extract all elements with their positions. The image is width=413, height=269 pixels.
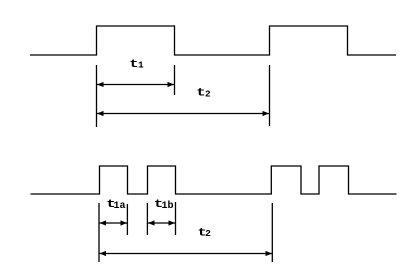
- arrowhead t1 right: [168, 82, 175, 87]
- label t2 top: [196, 87, 211, 99]
- arrowhead t2 right: [263, 111, 270, 116]
- wire top waveform: [30, 26, 396, 55]
- arrowhead t1a right: [121, 220, 128, 225]
- wire t2 bottom arrow shaft: [100, 253, 273, 255]
- arrowhead t2 left: [97, 111, 104, 116]
- arrowhead t1 left: [97, 82, 104, 87]
- wire t1b arrow shaft: [148, 222, 175, 224]
- label t1b: [154, 199, 174, 212]
- wire t1 arrow shaft: [97, 84, 174, 86]
- label t1: [129, 59, 144, 71]
- wire bottom waveform: [31, 166, 397, 194]
- arrowhead t1a left: [100, 220, 107, 225]
- arrowhead t2 bottom left: [100, 251, 107, 256]
- label t1a: [106, 199, 125, 212]
- arrowhead t2 bottom right: [266, 251, 273, 256]
- node t1b right extension line: [175, 202, 177, 235]
- node t1 right extension line: [174, 65, 176, 95]
- svg-text:1b: 1b: [162, 200, 174, 212]
- node t1b left extension line: [146, 203, 148, 235]
- svg-text:2: 2: [205, 89, 211, 100]
- node t2 bottom right extension line: [271, 203, 273, 262]
- node t2 right extension line: [269, 65, 271, 126]
- svg-text:1a: 1a: [114, 201, 126, 212]
- wire t2 arrow shaft: [97, 113, 269, 115]
- arrowhead t1b right: [169, 220, 176, 225]
- svg-text:2: 2: [205, 228, 211, 239]
- svg-text:1: 1: [138, 60, 144, 71]
- arrowhead t1b left: [148, 220, 155, 225]
- node t1a left extension line: [98, 203, 100, 262]
- label t2 bottom: [198, 227, 212, 239]
- wire t1a arrow shaft: [100, 222, 128, 224]
- node t1 left extension line: [96, 65, 98, 127]
- node t1a right extension line: [126, 204, 128, 235]
